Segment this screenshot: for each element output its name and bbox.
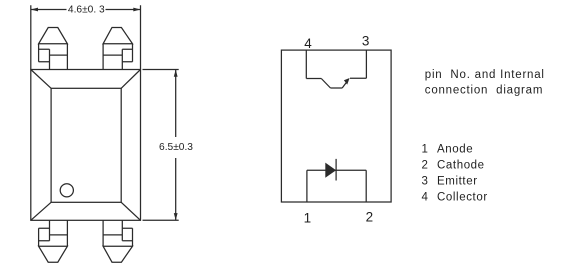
svg-text:4.6±0. 3: 4.6±0. 3	[68, 5, 105, 16]
svg-text:Cathode: Cathode	[437, 160, 485, 172]
svg-text:2: 2	[422, 160, 429, 172]
svg-text:Emitter: Emitter	[437, 176, 478, 188]
svg-text:1: 1	[304, 210, 312, 225]
svg-text:2: 2	[366, 210, 374, 225]
svg-text:4: 4	[422, 191, 429, 203]
svg-text:6.5±0.3: 6.5±0.3	[159, 142, 193, 153]
svg-text:connection diagram: connection diagram	[425, 85, 543, 97]
svg-text:pin No. and Internal: pin No. and Internal	[425, 69, 545, 81]
svg-text:Anode: Anode	[437, 144, 473, 156]
svg-text:3: 3	[422, 176, 429, 188]
svg-text:Collector: Collector	[437, 191, 488, 203]
svg-text:1: 1	[422, 144, 429, 156]
svg-text:4: 4	[304, 36, 312, 51]
svg-text:3: 3	[362, 33, 370, 48]
